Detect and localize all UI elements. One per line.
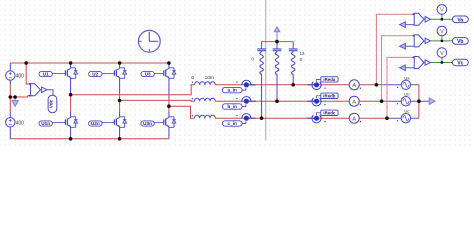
svg-text:iRedc: iRedc bbox=[323, 110, 336, 115]
svg-text:Vc: Vc bbox=[457, 61, 463, 67]
AC source Uc bbox=[401, 109, 410, 123]
DC source V1 bbox=[6, 71, 15, 80]
wire: leg B column bbox=[119, 95, 121, 112]
wire: reference arrow stem bbox=[276, 32, 278, 42]
signal tag Vc bbox=[452, 59, 468, 66]
voltmeter Vdc probe body bbox=[29, 83, 40, 96]
clock symbol bbox=[138, 30, 160, 52]
junction (Vb signal) bbox=[441, 40, 443, 42]
transistor Q2 (leg B top IGBT with diode) bbox=[114, 68, 126, 79]
wire: V1 bottom lead bbox=[9, 80, 11, 84]
wire: V2 bottom lead bbox=[9, 127, 11, 139]
node tag b_in bbox=[222, 97, 255, 110]
wire: row1 coil to ammeter bbox=[215, 84, 349, 86]
voltmeter probe Va bbox=[400, 13, 431, 27]
V meter circle (Vb) bbox=[437, 26, 447, 36]
wire: V1 top lead bbox=[9, 63, 11, 71]
transistor Q6 (leg C bottom IGBT with diode) bbox=[164, 117, 176, 128]
divider line (gray) bbox=[265, 0, 267, 141]
gate tag U2n bbox=[89, 121, 115, 126]
svg-text:A: A bbox=[352, 83, 356, 89]
svg-text:13: 13 bbox=[300, 51, 305, 56]
transistor Q1 (leg A top IGBT with diode) bbox=[65, 68, 77, 79]
wire: phase C output bbox=[169, 106, 195, 118]
ammeter A2 bbox=[349, 96, 361, 106]
signal tag Vdc (vertical capsule) bbox=[48, 95, 57, 112]
signal tag Va bbox=[452, 16, 468, 23]
wire: phase B output bbox=[120, 99, 195, 102]
svg-text:A: A bbox=[352, 116, 356, 122]
node tag iRedc bbox=[307, 110, 338, 123]
svg-text:U1: U1 bbox=[43, 72, 49, 77]
voltmeter probe Vc bbox=[400, 57, 431, 71]
polarity marks (tiny plus signs) bbox=[192, 82, 398, 123]
svg-text:iReda: iReda bbox=[323, 77, 336, 82]
wire: row2 ammeter to source bbox=[359, 100, 381, 102]
svg-text:U2n: U2n bbox=[91, 121, 100, 126]
gate tag U1 bbox=[39, 71, 65, 76]
wire: row2 source lead bbox=[382, 100, 430, 102]
wire: DC bus top rail bbox=[10, 62, 169, 64]
svg-text:Ub: Ub bbox=[404, 92, 410, 97]
transistor Q4 (leg A bottom IGBT with diode) bbox=[65, 117, 77, 128]
signal wire Vb bbox=[430, 36, 452, 41]
resistor R2 (zigzag) bbox=[275, 52, 279, 75]
filter branch 3: wire down to row1 bbox=[292, 42, 294, 85]
wire: leg A column bbox=[70, 95, 72, 112]
svg-text:400: 400 bbox=[16, 74, 25, 80]
AC source Ub bbox=[401, 92, 410, 106]
gate tag U1n bbox=[39, 121, 65, 126]
ammeter A3 bbox=[349, 113, 361, 123]
node tag iReda bbox=[307, 77, 338, 90]
buffer triangle (Vdc) bbox=[40, 87, 47, 92]
node tag iRedb bbox=[307, 93, 338, 106]
wire: left DC midpoint vertical bbox=[9, 85, 11, 112]
reference arrow (up) node N bbox=[274, 27, 280, 32]
capacitor C1 bbox=[257, 49, 266, 51]
svg-text:b_in: b_in bbox=[227, 104, 237, 109]
inductor L3 bbox=[195, 115, 216, 118]
inductor L1 bbox=[195, 82, 216, 85]
svg-text:400: 400 bbox=[16, 120, 25, 126]
svg-text:Ua: Ua bbox=[404, 75, 410, 80]
svg-text:a_in: a_in bbox=[228, 88, 238, 93]
AC source Ua bbox=[401, 75, 410, 89]
wire: ground stub bbox=[14, 97, 16, 101]
ground arrow (down) bbox=[12, 101, 18, 107]
wire: filter cap top bus bbox=[262, 41, 294, 43]
wire: V2 top lead bbox=[9, 112, 11, 118]
wire: voltmeter plus riser bbox=[26, 63, 30, 84]
signal wire Va bbox=[430, 14, 452, 19]
wire: row1 ammeter to source bbox=[359, 84, 376, 86]
svg-text:iRedb: iRedb bbox=[323, 93, 336, 98]
wire: row1 source lead bbox=[376, 84, 419, 86]
svg-text:U3: U3 bbox=[145, 72, 151, 77]
gate tag U3 bbox=[141, 71, 164, 76]
svg-text:0: 0 bbox=[191, 75, 194, 81]
svg-text:A: A bbox=[352, 99, 356, 105]
junction (Vc signal) bbox=[441, 61, 443, 63]
wire: phase A output bbox=[71, 85, 195, 95]
reference arrow (right) neutral bbox=[429, 98, 435, 104]
wire: voltmeter riser 3 bbox=[387, 57, 414, 118]
svg-text:V: V bbox=[440, 51, 444, 57]
V meter circle (Va) bbox=[437, 5, 447, 15]
V meter circle (Vc) bbox=[437, 48, 447, 58]
junction (Va signal) bbox=[441, 18, 443, 20]
wire: voltmeter riser 2 bbox=[382, 36, 414, 101]
svg-text:10m: 10m bbox=[205, 75, 214, 81]
wire: row3 coil to ammeter bbox=[215, 117, 349, 119]
signal wire to Vdc tag bbox=[47, 90, 53, 95]
capacitor C3 bbox=[289, 49, 298, 51]
wire: neutral bus vertical bbox=[418, 85, 420, 118]
filter branch 2: wire down to row2 bbox=[276, 42, 278, 102]
node tag a_in bbox=[222, 80, 255, 93]
ammeter A1 bbox=[349, 80, 361, 90]
svg-text:c_in: c_in bbox=[228, 121, 238, 126]
svg-text:Uc: Uc bbox=[404, 109, 409, 114]
wire: DC bus bottom rail bbox=[10, 138, 169, 140]
svg-text:Va: Va bbox=[457, 17, 463, 23]
svg-text:V: V bbox=[440, 29, 444, 35]
DC source V2 bbox=[6, 118, 15, 127]
node tag c_in bbox=[222, 114, 255, 127]
transistor Q5 (leg B bottom IGBT with diode) bbox=[114, 117, 126, 128]
inductor L2 bbox=[195, 98, 216, 101]
gate tag U2 bbox=[89, 71, 115, 76]
signal tag Vb bbox=[452, 38, 468, 45]
filter branch 1: wire down to row3 bbox=[261, 42, 263, 119]
svg-text:U3n: U3n bbox=[143, 121, 152, 126]
wire: row3 ammeter to source bbox=[359, 117, 387, 119]
svg-text:U2: U2 bbox=[92, 72, 98, 77]
capacitor C2 bbox=[273, 49, 282, 51]
resistor R3 (zigzag) bbox=[291, 52, 295, 75]
resistor R1 (zigzag) bbox=[260, 52, 264, 75]
wire: leg C column bbox=[168, 95, 170, 112]
svg-text:Vb: Vb bbox=[457, 39, 463, 45]
svg-text:U1n: U1n bbox=[41, 121, 50, 126]
wire: voltmeter riser 1 bbox=[376, 14, 413, 85]
svg-text:V: V bbox=[440, 8, 444, 14]
wire: row3 source lead bbox=[387, 117, 419, 119]
wire: row2 coil to ammeter bbox=[215, 100, 349, 102]
voltmeter probe Vb bbox=[400, 35, 431, 49]
transistor Q3 (leg C top IGBT with diode) bbox=[164, 68, 176, 79]
svg-text:Vdc: Vdc bbox=[48, 99, 53, 108]
signal wire Vc bbox=[430, 57, 452, 62]
wire: midpoint horizontal to voltmeter minus bbox=[10, 96, 30, 97]
gate tag U3n bbox=[141, 121, 164, 126]
